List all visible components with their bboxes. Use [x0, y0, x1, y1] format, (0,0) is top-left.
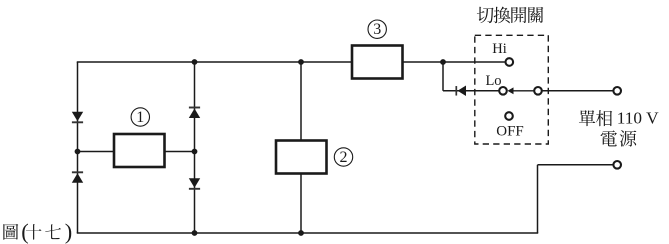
terminal Lo common contact	[534, 87, 542, 95]
wire switch feed drop	[442, 62, 444, 91]
wire bottom bus	[77, 232, 538, 234]
wire top bus	[77, 61, 352, 63]
text figure caption parens and 十七	[21, 219, 72, 244]
wire feed to Lo contact	[443, 90, 499, 92]
terminal source neutral	[613, 161, 621, 169]
wire center vertical lower	[300, 174, 302, 234]
node junction top center	[298, 59, 304, 65]
wire left vertical	[77, 62, 79, 233]
text Lo	[485, 73, 501, 89]
wire mid right	[165, 151, 195, 153]
diode D3	[189, 108, 200, 119]
terminal Hi contact	[506, 58, 514, 66]
svg-text:1: 1	[136, 109, 144, 126]
text OFF	[496, 124, 524, 140]
component box 1	[114, 134, 165, 167]
wire wiper	[513, 90, 534, 92]
label 2 circled	[334, 148, 352, 166]
label 1 circled	[131, 108, 149, 126]
svg-text:3: 3	[373, 21, 381, 38]
svg-text:OFF: OFF	[496, 124, 524, 140]
diode D2	[72, 172, 83, 183]
node junction switch feed	[440, 59, 446, 65]
wire center vertical upper	[300, 62, 302, 141]
wire source return horizontal	[538, 164, 614, 166]
svg-text:Lo: Lo	[485, 73, 501, 89]
text source label 電源	[601, 130, 637, 146]
switch wiper arrow	[508, 87, 514, 94]
svg-text:2: 2	[340, 149, 348, 166]
node junction mid left	[75, 149, 81, 155]
diode D1	[72, 112, 83, 123]
svg-text:(: (	[21, 219, 29, 244]
terminal source hot	[613, 87, 621, 95]
switch S1 dashed enclosure	[475, 35, 549, 144]
wire mid left	[78, 151, 115, 153]
node junction mid right	[192, 149, 198, 155]
node junction bottom center	[298, 230, 304, 236]
text source label 110 V	[617, 109, 659, 128]
diode D5 pointing left	[456, 86, 466, 97]
text figure caption 圖	[3, 224, 18, 240]
wire bridge right vertical	[194, 62, 196, 233]
text source label 單相	[579, 110, 612, 126]
wire source return riser	[537, 165, 539, 233]
wire box3 to Hi contact	[403, 61, 505, 63]
component box 3	[352, 46, 403, 79]
wire common to source	[543, 90, 614, 92]
component box 2	[276, 141, 327, 174]
diode D4	[189, 178, 200, 189]
text Hi	[492, 41, 507, 57]
node junction top bridge	[192, 59, 198, 65]
svg-text:Hi: Hi	[492, 41, 507, 57]
label 3 circled	[368, 20, 386, 38]
node junction bottom bridge	[192, 230, 198, 236]
terminal Lo contact	[499, 87, 507, 95]
svg-text:): )	[65, 219, 73, 244]
svg-text:110 V: 110 V	[617, 109, 659, 128]
text switch title 切換開關	[477, 7, 543, 24]
terminal OFF contact	[505, 112, 513, 120]
